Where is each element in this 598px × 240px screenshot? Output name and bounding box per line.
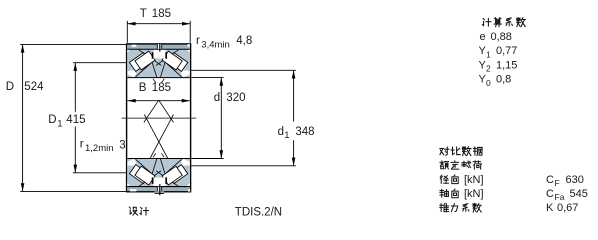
svg-text:r: r — [196, 35, 200, 47]
top corner blue wedge right — [184, 74, 190, 77]
svg-text:C: C — [546, 174, 554, 186]
diamond upper-right edge — [159, 100, 174, 122]
svg-text:0,67: 0,67 — [557, 202, 578, 214]
dim d line — [191, 78, 223, 159]
svg-text:D: D — [48, 114, 56, 126]
roller top-right back — [168, 53, 188, 72]
svg-text:e: e — [480, 31, 486, 43]
row 轴向 [kN] C_Fa 545 — [440, 189, 458, 198]
diamond lower-left long edge — [144, 115, 170, 164]
top white pocket left — [128, 70, 137, 77]
bottom cage line right (under roller) — [156, 171, 178, 187]
top bore line — [127, 77, 190, 79]
bottom raceway line right — [166, 159, 182, 173]
svg-text:[kN]: [kN] — [464, 188, 484, 200]
svg-text:415: 415 — [66, 114, 85, 126]
bottom white pocket left — [128, 159, 137, 166]
svg-text:B: B — [139, 82, 147, 94]
bottom outer-ring band — [127, 184, 190, 195]
top raceway line right — [166, 63, 182, 77]
bottom section body — [127, 159, 190, 188]
bottom cage line left (under roller) — [139, 171, 161, 187]
roller bottom-right front — [162, 166, 182, 185]
svg-text:T: T — [140, 8, 147, 20]
svg-text:1,2min: 1,2min — [85, 143, 114, 154]
roller bottom-right back — [168, 165, 188, 184]
svg-text:1: 1 — [486, 49, 491, 59]
bottom corner blue wedge right — [184, 159, 190, 162]
svg-text:C: C — [546, 188, 554, 200]
top V line right — [160, 62, 165, 78]
diamond lower-right long edge — [147, 115, 173, 164]
roller top-left back — [129, 53, 149, 72]
svg-text:2: 2 — [486, 64, 491, 74]
roller bottom-left back — [129, 165, 149, 184]
lower stub left — [153, 153, 156, 157]
top center flange block — [153, 49, 167, 58]
label 设计 — [129, 207, 148, 215]
centerline axis — [122, 117, 197, 119]
bottom V line left — [152, 159, 157, 175]
row 推力系数 K 0,67 — [440, 203, 481, 212]
svg-text:348: 348 — [295, 126, 314, 138]
svg-text:1: 1 — [284, 130, 289, 141]
dim d1 line — [191, 70, 296, 166]
bottom raceway line left — [136, 159, 152, 173]
lower stub right — [161, 153, 164, 157]
svg-text:TDIS.2/N: TDIS.2/N — [235, 207, 282, 219]
dim D1 line — [73, 63, 127, 173]
svg-text:0,88: 0,88 — [491, 31, 512, 43]
svg-text:630: 630 — [566, 174, 584, 186]
bearing outline rect — [127, 44, 191, 192]
top section body — [127, 49, 190, 78]
bottom corner blue wedge left — [128, 159, 134, 162]
svg-text:524: 524 — [24, 81, 44, 93]
upper stub left — [153, 79, 156, 83]
row 径向 [kN] C_F 630 — [440, 175, 458, 184]
upper stub right — [161, 79, 164, 83]
top outer-ring band — [127, 43, 190, 52]
svg-text:185: 185 — [152, 82, 171, 94]
svg-text:0,8: 0,8 — [496, 74, 511, 86]
dim D line — [20, 44, 127, 191]
svg-text:3,4min: 3,4min — [201, 39, 230, 50]
svg-text:3: 3 — [119, 139, 125, 151]
top outer corner chamfer wedges — [127, 50, 130, 53]
top white pocket right — [181, 70, 190, 77]
top V line left — [152, 62, 157, 78]
dim B line — [128, 99, 190, 103]
bottom white pocket right — [181, 159, 190, 166]
roller top-right front — [162, 51, 182, 70]
svg-text:d: d — [214, 92, 220, 104]
svg-text:Fa: Fa — [555, 192, 565, 202]
header 计算系数 — [482, 18, 525, 27]
bottom center flange block — [153, 177, 167, 186]
header 对比数据 — [440, 147, 483, 156]
svg-text:0,77: 0,77 — [496, 45, 517, 57]
svg-text:4,8: 4,8 — [236, 35, 252, 47]
top cage line left (under roller) — [139, 50, 161, 66]
svg-text:F: F — [555, 178, 560, 188]
svg-text:r: r — [80, 138, 84, 150]
top raceway line left — [136, 63, 152, 77]
svg-text:1: 1 — [57, 118, 62, 129]
svg-text:d: d — [278, 126, 284, 138]
diamond upper-left edge — [144, 100, 159, 122]
dim T line — [127, 21, 190, 43]
roller top-left front — [135, 51, 155, 70]
top corner blue wedge left — [128, 74, 134, 77]
row 额定载荷 — [440, 161, 482, 169]
svg-text:K: K — [546, 202, 554, 214]
roller bottom-left front — [135, 166, 155, 185]
svg-text:0: 0 — [486, 78, 491, 88]
bottom outer corner chamfer wedges — [127, 183, 130, 186]
svg-text:1,15: 1,15 — [496, 59, 517, 71]
bottom bore line — [127, 158, 190, 160]
svg-text:D: D — [6, 81, 14, 93]
svg-text:320: 320 — [226, 92, 245, 104]
svg-text:545: 545 — [570, 188, 588, 200]
top cage line right (under roller) — [156, 50, 178, 66]
bottom V line right — [160, 159, 165, 175]
svg-text:[kN]: [kN] — [464, 174, 484, 186]
svg-text:185: 185 — [152, 8, 171, 20]
